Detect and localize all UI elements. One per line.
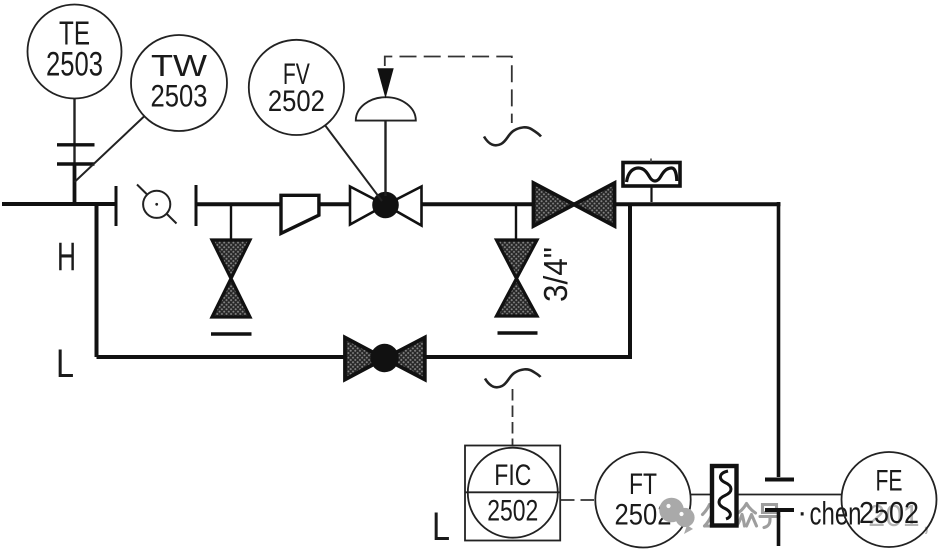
watermark latin text [797,494,862,532]
wire orifice run vertical upper [777,202,781,477]
instrument TE 2503 [28,5,122,99]
bypass valve 3/4 (hatched) [497,240,538,316]
gate valve H line (hatched) [534,183,615,226]
instrument FIC 2502 shared display [465,446,560,541]
node flange tick right [195,185,198,226]
instrument inline circle symbol [137,185,177,224]
instrument FT 2502 [595,452,690,547]
control valve ball [372,192,399,219]
watermark chinese characters [703,504,780,528]
wire main line tick to reducer [196,202,781,206]
actuator stem [384,120,386,196]
wire orifice run vertical lower [777,512,781,546]
wire main process line H left segment [2,202,116,206]
svg-text:3/4": 3/4" [537,247,574,302]
signal dashed FIC to FT [561,499,595,501]
signal break squiggle top [484,127,541,145]
instrument FE 2502 [842,452,937,547]
signal dashed line from arrow [385,57,512,124]
wire FV leader line [325,125,382,201]
svg-text:2502: 2502 [859,496,919,530]
actuator diaphragm dome [356,97,416,120]
drain vent bar left [211,332,252,335]
svg-text:·: · [797,494,807,529]
watermark wechat logo [659,498,694,534]
wire process line L [97,355,633,359]
wire TE lead line [73,99,75,166]
wire FT to FE thin line [691,494,843,496]
svg-text:2502: 2502 [487,495,538,528]
wire right vertical joining L to H [628,204,632,357]
svg-text:L: L [432,505,450,549]
svg-text:2503: 2503 [151,78,208,114]
orifice flange lower [765,508,794,512]
svg-text:H: H [57,235,76,279]
orifice flange upper [765,478,794,482]
svg-text:2503: 2503 [46,46,103,84]
vent bar 3/4 valve [498,331,538,334]
solenoid arrow [377,68,393,98]
watermark faint tail [868,498,931,537]
instrument FV 2502 [249,40,344,135]
bypass valve stem 3/4 [515,204,517,241]
instrument TW 2503 [131,35,227,131]
svg-text:chen: chen [810,496,862,532]
drain valve left (hatched) [212,240,250,317]
drain valve stem left [230,204,232,241]
signal break squiggle bottom [485,369,541,387]
signal dashed line to FIC [512,389,514,446]
svg-text:2502: 2502 [268,85,325,118]
capillary seal box [712,466,737,526]
wire TW leader line [75,117,145,183]
svg-text:FE: FE [876,465,903,498]
svg-text:L: L [56,342,74,386]
wire H branch vertical [95,202,99,357]
thermowell bar upper [57,143,95,146]
seal pot box with wave [623,159,680,203]
svg-text:FT: FT [629,468,657,501]
reducer [281,195,319,233]
control valve FV body [350,187,422,226]
L line globe valve (hatched with ball) [345,338,425,380]
thermowell bar lower [57,162,95,165]
L valve ball [370,344,398,372]
svg-text:FIC: FIC [494,459,531,492]
node flange tick left [115,186,118,226]
